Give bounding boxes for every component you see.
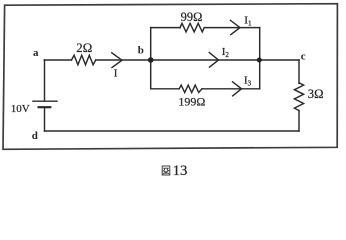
svg-text:I3: I3 (244, 75, 252, 88)
svg-text:13: 13 (173, 163, 188, 179)
caption glyph tu (figure) (162, 166, 170, 175)
wire top branch left lead (151, 27, 180, 29)
wire right vertical below 3ohm (298, 111, 300, 132)
svg-text:I2: I2 (222, 46, 230, 59)
arrow current I (112, 53, 122, 68)
wire a down to battery (44, 60, 46, 101)
wire a-b-c main horizontal (44, 59, 71, 61)
wire bottom branch right lead (202, 88, 260, 90)
resistor R 3ohm zigzag vertical (294, 83, 303, 111)
wire 3ohm up to c corner (298, 60, 300, 83)
battery B1 short plate (39, 106, 51, 108)
arrow current I1 (231, 20, 241, 34)
resistor R 199ohm zigzag (179, 85, 202, 92)
svg-text:a: a (33, 47, 39, 59)
svg-text:99Ω: 99Ω (181, 10, 203, 24)
svg-text:199Ω: 199Ω (178, 94, 205, 108)
resistor R 2ohm zigzag (72, 55, 96, 65)
resistor R 99ohm zigzag (180, 23, 204, 32)
arrow current I3 (233, 82, 242, 96)
wire right branch vertical (259, 28, 261, 89)
wire battery to d corner (44, 107, 46, 131)
svg-text:b: b (138, 45, 144, 57)
arrow current I2 (209, 53, 218, 68)
svg-text:2Ω: 2Ω (76, 41, 92, 55)
border frame (decorative) (3, 4, 337, 150)
wire resistor to c corner (96, 59, 299, 61)
node junction dot right (257, 58, 262, 63)
node b junction dot (148, 57, 154, 63)
wire bottom d to 3ohm (45, 130, 300, 132)
svg-text:3Ω: 3Ω (308, 87, 324, 101)
wire b vertical (150, 28, 152, 89)
svg-text:I1: I1 (244, 15, 252, 28)
wire bottom branch left lead (151, 88, 180, 90)
svg-text:10V: 10V (11, 103, 30, 115)
svg-text:I: I (114, 68, 118, 80)
wire top branch right lead (204, 27, 259, 29)
battery B1 10V long plate (33, 100, 57, 102)
svg-text:d: d (32, 130, 38, 142)
svg-text:c: c (301, 50, 306, 62)
